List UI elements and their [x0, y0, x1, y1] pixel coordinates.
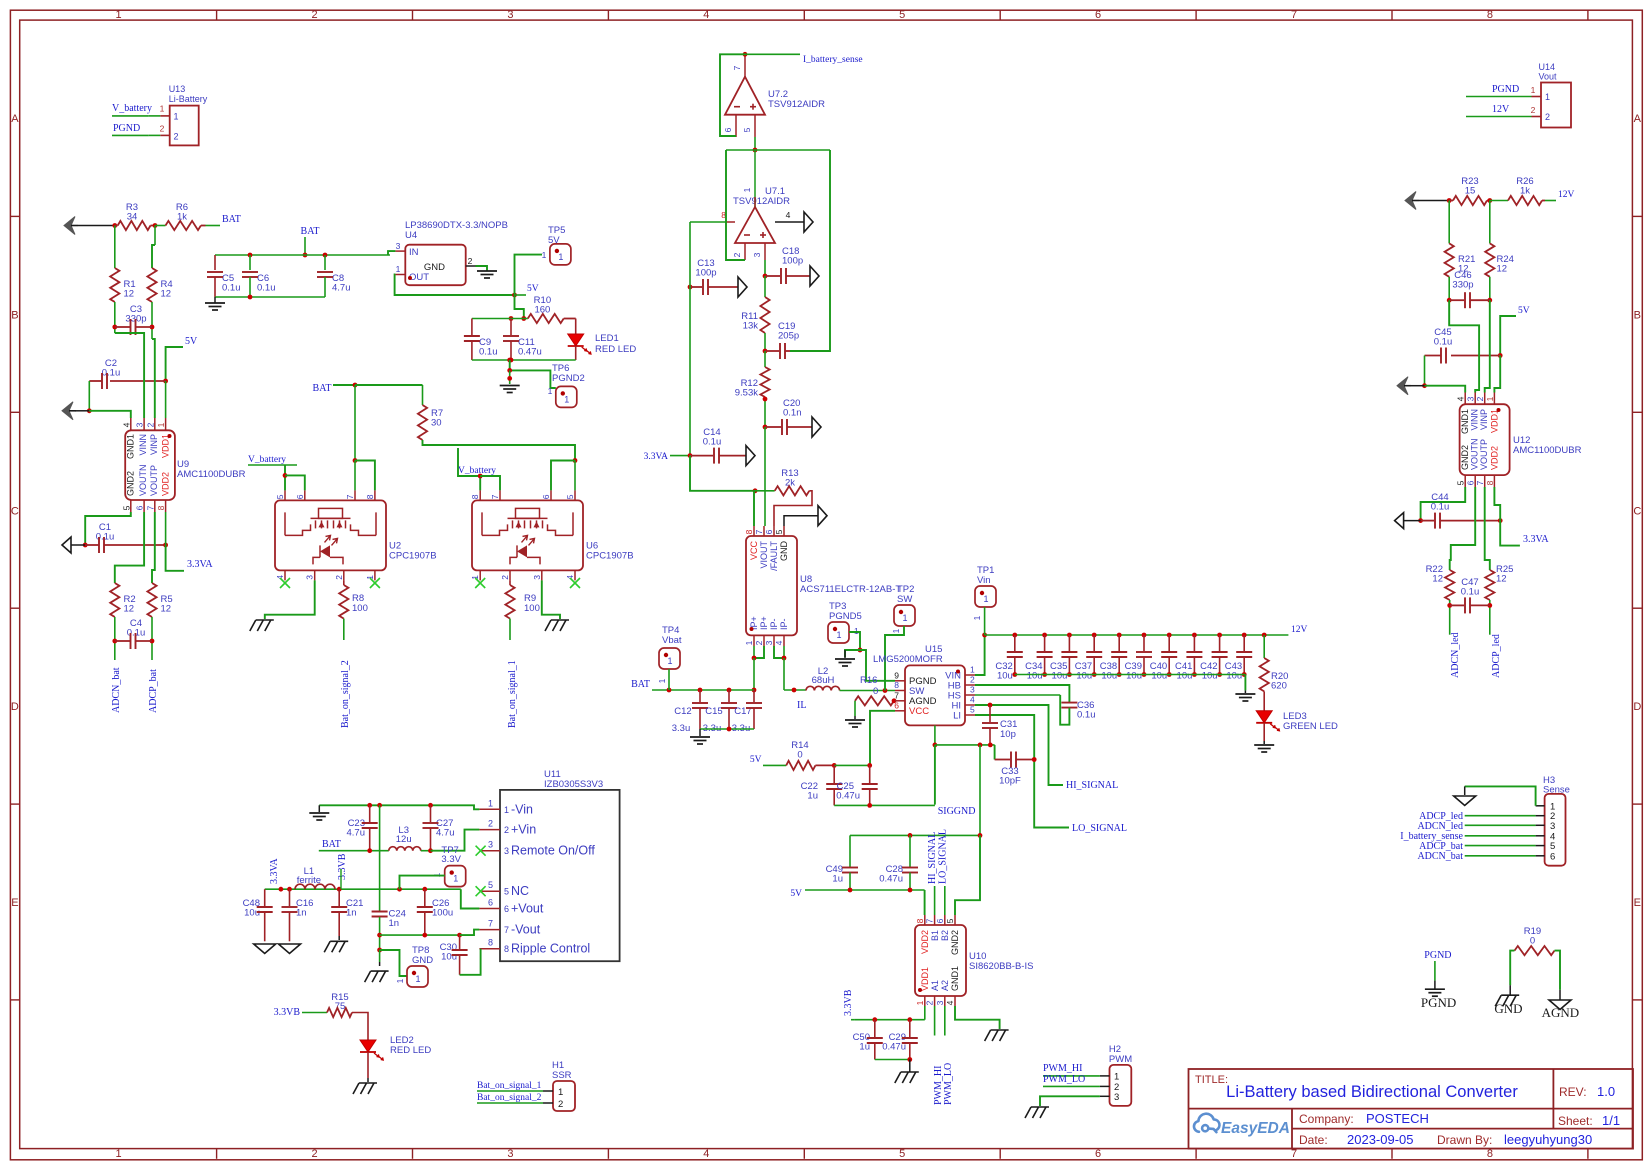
svg-text:A: A: [1634, 113, 1642, 125]
svg-text:IP-: IP-: [779, 618, 789, 630]
wire VDD2 to 3.3VA: [166, 545, 184, 571]
wire H3 pin1 to gnd: [1465, 786, 1536, 805]
svg-text:1: 1: [657, 678, 667, 683]
U7.2 pin 5 stub: [754, 115, 756, 137]
svg-text:5: 5: [504, 887, 509, 897]
svg-text:1: 1: [174, 112, 179, 122]
svg-text:4: 4: [121, 422, 131, 427]
svg-text:8: 8: [894, 680, 899, 690]
svg-text:13k: 13k: [743, 321, 759, 332]
svg-text:TITLE:: TITLE:: [1195, 1074, 1228, 1086]
svg-text:10u: 10u: [1151, 671, 1167, 682]
svg-text:7: 7: [754, 529, 764, 534]
svg-text:3: 3: [488, 840, 493, 850]
isolation amp U12 AMC1100DUBR: [1460, 404, 1510, 475]
wire row down to C33: [994, 745, 996, 760]
svg-text:1: 1: [891, 628, 901, 633]
svg-text:GND1: GND1: [126, 434, 136, 459]
wire BAT to R7 and U2: [333, 384, 355, 386]
svg-text:POSTECH: POSTECH: [1366, 1111, 1429, 1126]
junction R23 left: [1447, 198, 1452, 203]
wire U4 GND to gnd: [476, 266, 488, 271]
svg-text:205p: 205p: [778, 331, 799, 342]
svg-text:8: 8: [1487, 9, 1493, 21]
svg-text:1n: 1n: [389, 918, 400, 929]
svg-text:BAT: BAT: [222, 214, 241, 225]
open triangle gnd C16: [279, 944, 301, 954]
svg-text:1n: 1n: [296, 908, 307, 919]
wire U12 VOUTN to R22: [1450, 487, 1476, 570]
svg-text:Drawn By:: Drawn By:: [1437, 1133, 1492, 1147]
svg-text:4: 4: [703, 9, 709, 21]
svg-text:3: 3: [504, 846, 509, 856]
svg-text:3: 3: [507, 1148, 513, 1160]
wire TP6 branch: [510, 360, 556, 388]
wire VCC stub down: [754, 491, 755, 526]
svg-text:3: 3: [305, 575, 315, 580]
svg-text:B2: B2: [940, 930, 950, 941]
U7.1 pin 3 stub: [764, 243, 766, 260]
svg-text:OUT: OUT: [409, 272, 429, 283]
svg-text:PGND2: PGND2: [552, 373, 585, 384]
wire R19 left to GND: [1510, 951, 1514, 986]
svg-text:0: 0: [797, 750, 802, 761]
svg-text:2: 2: [1545, 112, 1550, 122]
svg-text:1: 1: [156, 422, 166, 427]
svg-text:10u: 10u: [1126, 671, 1142, 682]
wire to U2 pin8: [355, 461, 375, 491]
svg-text:1: 1: [1545, 92, 1550, 102]
wire R1 bottom to U9 VINN: [115, 333, 144, 418]
svg-text:5: 5: [275, 494, 285, 499]
svg-text:2: 2: [970, 675, 975, 685]
svg-text:GND1: GND1: [1460, 409, 1470, 434]
wire U6 pin3 to gnd: [542, 580, 560, 619]
svg-text:A: A: [11, 113, 19, 125]
12V power rail: [985, 634, 1289, 636]
junction C22 top: [832, 763, 837, 768]
svg-text:2: 2: [732, 252, 742, 257]
svg-text:3: 3: [396, 241, 401, 251]
svg-text:PGND: PGND: [1421, 995, 1456, 1010]
wire R4 bottom to U9 VINP: [152, 339, 155, 418]
svg-text:VOUTP: VOUTP: [1479, 439, 1489, 470]
wire TP8 branch: [380, 950, 407, 976]
svg-text:12: 12: [161, 289, 172, 300]
svg-text:7: 7: [925, 918, 935, 923]
svg-text:SSR: SSR: [552, 1070, 572, 1081]
svg-text:VINP: VINP: [1479, 409, 1489, 430]
wire 5V node to TP5: [515, 255, 543, 295]
junction GND1 node: [87, 408, 92, 413]
bottom rail caps: [1015, 674, 1246, 676]
wire R15 to LED2: [352, 1013, 368, 1041]
svg-text:6: 6: [1095, 1148, 1101, 1160]
resistor R12 9.53k: [764, 351, 766, 367]
wire A1 down PWM_HI: [934, 1006, 936, 1036]
wire GND pin to port: [784, 516, 818, 526]
capacitor C41 10u: [1192, 633, 1197, 638]
svg-text:+Vout: +Vout: [511, 902, 544, 916]
SSR U2 CPC1907B: [275, 500, 386, 570]
svg-text:1: 1: [558, 1087, 563, 1098]
gate driver U15 LMG5200MOFR: [905, 665, 965, 725]
svg-text:0.1u: 0.1u: [1434, 337, 1453, 348]
svg-text:3.3VB: 3.3VB: [843, 989, 854, 1016]
wire IL node: [784, 689, 806, 691]
junction C47 right: [1487, 603, 1492, 608]
svg-text:10u: 10u: [441, 952, 457, 963]
svg-text:E: E: [1634, 897, 1641, 909]
svg-text:TSV912AIDR: TSV912AIDR: [733, 196, 790, 207]
ground (chassis) LED2: [367, 1078, 369, 1082]
ground (chassis) GND port: [1501, 994, 1519, 996]
svg-text:4: 4: [786, 210, 791, 220]
junction C25 top / VCC: [867, 763, 872, 768]
svg-text:3: 3: [1550, 821, 1555, 832]
svg-text:7: 7: [504, 925, 509, 935]
svg-text:7: 7: [488, 919, 493, 929]
svg-text:CPC1907B: CPC1907B: [389, 550, 437, 561]
svg-text:1: 1: [854, 626, 859, 636]
svg-text:0.1u: 0.1u: [1461, 587, 1480, 598]
wire HB to C36: [975, 685, 1069, 702]
wire U4 OUT to 5V node: [395, 275, 515, 296]
svg-text:1: 1: [542, 250, 547, 260]
U7.1 pin 1 stub: [754, 150, 756, 207]
svg-text:C12: C12: [674, 706, 691, 717]
wire R26 to 12V: [1545, 200, 1556, 202]
svg-text:3.3VA: 3.3VA: [269, 858, 280, 884]
svg-text:LI: LI: [953, 711, 961, 722]
svg-text:12: 12: [161, 604, 172, 615]
capacitor C43 10u: [1242, 633, 1247, 638]
capacitor C38 10u: [1117, 633, 1122, 638]
svg-text:0: 0: [873, 686, 878, 697]
svg-text:10u: 10u: [1177, 671, 1193, 682]
wire -Vout pin: [460, 930, 480, 936]
svg-text:620: 620: [1271, 681, 1287, 692]
ground (chassis) U6: [551, 619, 569, 621]
wire R9 down Bat_on_signal_1: [509, 619, 511, 640]
svg-text:8: 8: [488, 938, 493, 948]
wire R16 left to gnd: [854, 701, 856, 716]
svg-text:GND: GND: [779, 541, 789, 562]
wire VIOUT vertical: [764, 427, 766, 526]
svg-text:4: 4: [945, 1000, 955, 1005]
svg-text:1: 1: [116, 9, 122, 21]
wire top rail C9-C11: [472, 318, 524, 320]
svg-text:4: 4: [970, 695, 975, 705]
svg-text:5: 5: [1456, 480, 1466, 485]
wire U9 VOUTP to R5: [152, 512, 155, 583]
capacitor C40 10u: [1167, 633, 1172, 638]
wire U13 pin2: [149, 134, 161, 136]
svg-text:VOUTP: VOUTP: [149, 465, 159, 496]
junction row left: [933, 743, 938, 748]
svg-text:1k: 1k: [1520, 186, 1530, 197]
svg-text:10u: 10u: [1101, 671, 1117, 682]
wire HI to HI_SIGNAL: [975, 705, 1063, 785]
wire loop left to pin2: [726, 150, 745, 260]
svg-text:10u: 10u: [244, 908, 260, 919]
svg-text:6: 6: [295, 494, 305, 499]
svg-text:5: 5: [488, 880, 493, 890]
svg-text:AMC1100DUBR: AMC1100DUBR: [177, 469, 246, 480]
wire R21 to C46: [1448, 277, 1450, 326]
wire R11 to C19: [764, 333, 766, 351]
svg-text:1: 1: [744, 640, 754, 645]
junction GND1 U12: [1422, 383, 1427, 388]
svg-text:Bat_on_signal_1: Bat_on_signal_1: [477, 1081, 542, 1091]
wire R25 to C47: [1489, 600, 1491, 635]
svg-text:VOUTN: VOUTN: [138, 465, 148, 497]
capacitor C34 10u: [1042, 633, 1047, 638]
junction C1 node: [83, 543, 88, 548]
svg-text:100: 100: [352, 603, 368, 614]
ground (chassis) U2: [256, 619, 274, 621]
svg-text:5: 5: [899, 9, 905, 21]
svg-text:6: 6: [1550, 851, 1555, 862]
svg-text:9: 9: [894, 670, 899, 680]
wire TP7 to 3.3VB rail: [400, 876, 445, 890]
svg-text:5: 5: [899, 1148, 905, 1160]
svg-text:GND2: GND2: [126, 471, 136, 496]
svg-text:VOUTN: VOUTN: [1470, 439, 1480, 471]
svg-text:C: C: [11, 505, 19, 517]
svg-text:7: 7: [490, 494, 500, 499]
svg-text:10u: 10u: [1052, 671, 1068, 682]
capacitor C39 10u: [1142, 633, 1147, 638]
svg-text:VIOUT: VIOUT: [759, 541, 769, 569]
ground (chassis) H2: [1031, 1106, 1049, 1108]
svg-text:2: 2: [488, 819, 493, 829]
svg-text:2: 2: [160, 124, 165, 134]
svg-text:5: 5: [945, 918, 955, 923]
no-connect X U6 pin1: [475, 578, 485, 588]
junction C19: [763, 349, 768, 354]
svg-text:VINN: VINN: [138, 434, 148, 456]
svg-text:Vout: Vout: [1539, 72, 1558, 82]
svg-text:+Vin: +Vin: [511, 823, 536, 837]
svg-text:1: 1: [116, 1148, 122, 1160]
wire A2 down PWM_LO: [944, 1006, 946, 1036]
svg-text:12V: 12V: [1291, 625, 1308, 635]
svg-text:10u: 10u: [1202, 671, 1218, 682]
svg-text:LP38690DTX-3.3/NOPB: LP38690DTX-3.3/NOPB: [405, 220, 508, 231]
svg-text:1: 1: [1531, 85, 1536, 95]
wire 5V node down to R10 rail: [515, 295, 524, 319]
svg-text:Li-Battery: Li-Battery: [169, 94, 208, 104]
ground port (gray arrow) R23: [1405, 192, 1416, 210]
svg-text:1: 1: [972, 615, 982, 620]
svg-text:2: 2: [1475, 396, 1485, 401]
digital isolator U10 SI8620BB-B-IS: [915, 925, 966, 996]
svg-text:8: 8: [1485, 480, 1495, 485]
wire H2 pin3 to gnd: [1040, 1096, 1100, 1106]
svg-text:LO_SIGNAL: LO_SIGNAL: [1072, 823, 1127, 834]
svg-text:8: 8: [744, 529, 754, 534]
bottom rail C9-LED1: [472, 359, 576, 361]
junction C44 node: [1418, 518, 1423, 523]
svg-text:3.3VA: 3.3VA: [187, 559, 213, 570]
junction C6 top: [248, 253, 253, 258]
wire U15 bottom to SIGGND row: [934, 725, 936, 745]
svg-text:1k: 1k: [177, 212, 187, 223]
svg-text:-Vin: -Vin: [511, 802, 533, 816]
svg-text:12: 12: [1496, 574, 1507, 585]
svg-text:V_battery: V_battery: [112, 103, 152, 114]
ground (signal) TP3: [845, 650, 860, 657]
svg-text:VINN: VINN: [1470, 409, 1480, 431]
svg-text:1u: 1u: [832, 874, 843, 885]
svg-text:-Vout: -Vout: [511, 923, 541, 937]
svg-text:12: 12: [124, 604, 135, 615]
svg-text:Sheet:: Sheet:: [1558, 1114, 1593, 1128]
svg-text:1: 1: [836, 630, 841, 640]
svg-text:1: 1: [667, 656, 672, 666]
svg-text:B: B: [11, 309, 18, 321]
svg-text:4: 4: [1456, 396, 1466, 401]
svg-text:CPC1907B: CPC1907B: [586, 550, 634, 561]
svg-text:1: 1: [915, 1000, 925, 1005]
junction R10 rail: [521, 316, 526, 321]
svg-text:6: 6: [894, 700, 899, 710]
wire VDD2 to 3.3VA: [1500, 521, 1520, 546]
junction C33 right on LI wire: [1032, 757, 1037, 762]
svg-text:3.3VA: 3.3VA: [644, 452, 669, 462]
svg-text:0.47u: 0.47u: [879, 874, 903, 885]
svg-text:100p: 100p: [695, 268, 716, 279]
svg-text:GND: GND: [424, 262, 445, 273]
svg-text:D: D: [11, 701, 19, 713]
svg-text:6: 6: [764, 529, 774, 534]
svg-text:1: 1: [983, 594, 988, 604]
svg-text:VDD1: VDD1: [1490, 409, 1500, 433]
wire L3 to +Vin: [421, 850, 431, 852]
junction R3 left: [112, 223, 117, 228]
svg-text:LED1: LED1: [595, 333, 619, 344]
svg-text:leegyuhyung30: leegyuhyung30: [1504, 1132, 1592, 1147]
svg-text:12: 12: [1497, 264, 1508, 275]
svg-text:5V: 5V: [185, 336, 198, 347]
svg-text:1u: 1u: [807, 791, 818, 802]
svg-text:LO_SIGNAL: LO_SIGNAL: [937, 829, 948, 884]
connector U13 Li-Battery: [170, 106, 199, 146]
junction U7.2 output: [743, 52, 748, 57]
wire GND1 node to U12 pin4: [1425, 386, 1466, 393]
svg-text:Vbat: Vbat: [662, 635, 682, 646]
svg-text:12: 12: [124, 289, 135, 300]
svg-text:2: 2: [468, 256, 473, 266]
junction C45 right: [1498, 353, 1503, 358]
svg-text:HI_SIGNAL: HI_SIGNAL: [1066, 780, 1118, 791]
port arrow C20: [812, 417, 821, 437]
U7.2 pin 7 output: [744, 54, 746, 76]
svg-text:Remote On/Off: Remote On/Off: [511, 844, 595, 858]
ground (chassis) C24: [379, 962, 381, 966]
wire U12 VOUTP to R25: [1485, 487, 1490, 570]
junction C18: [763, 274, 768, 279]
bottom rail C22/C25 to SIGGND: [834, 804, 935, 806]
svg-text:ACS711ELCTR-12AB-T: ACS711ELCTR-12AB-T: [800, 584, 901, 595]
svg-text:3.3VB: 3.3VB: [274, 1007, 301, 1018]
wire V_battery to U2 pins 5,6: [284, 465, 286, 490]
bottom rail C12-C17: [700, 728, 754, 730]
ground (chassis) U10 GND1: [991, 1029, 1009, 1031]
ground (signal) PGND port: [1425, 988, 1445, 990]
svg-text:A2: A2: [940, 980, 950, 991]
svg-text:6: 6: [1095, 9, 1101, 21]
wire PGND stub: [1434, 961, 1436, 981]
svg-text:2: 2: [145, 422, 155, 427]
bottom rail C50/C29: [875, 1059, 910, 1061]
svg-text:10u: 10u: [1226, 671, 1242, 682]
svg-text:1: 1: [415, 974, 420, 984]
svg-text:1: 1: [453, 874, 458, 884]
wire BAT down to U2 pin7: [354, 385, 356, 461]
wire IP+ pins join: [754, 646, 764, 658]
svg-text:Date:: Date:: [1299, 1133, 1328, 1147]
svg-text:2: 2: [174, 132, 179, 142]
junction BAT rail: [303, 253, 308, 258]
wire R21 to VINN U12: [1449, 300, 1479, 392]
ground (signal) LED3: [1254, 744, 1274, 746]
wire C2 left down: [88, 381, 90, 411]
wire to C20: [764, 410, 766, 427]
no-connect X U6 pin4: [570, 578, 580, 588]
svg-text:Bat_on_signal_2: Bat_on_signal_2: [477, 1093, 542, 1103]
svg-text:RED LED: RED LED: [390, 1045, 431, 1056]
svg-text:3: 3: [935, 1000, 945, 1005]
wire pin3 down chain: [764, 260, 766, 276]
open triangle gnd H3: [1454, 796, 1476, 806]
svg-text:NC: NC: [511, 884, 529, 898]
svg-text:3.3VA: 3.3VA: [1523, 534, 1549, 545]
wire U12 GND2 to C44 node: [1421, 487, 1466, 521]
wire SIGGND corner: [934, 745, 936, 805]
svg-text:SW: SW: [897, 594, 912, 605]
isolation amp U9 AMC1100DUBR: [125, 430, 175, 500]
junction C46 left: [1447, 298, 1452, 303]
svg-text:10p: 10p: [1000, 729, 1016, 740]
wire R24 to C46: [1489, 277, 1491, 300]
svg-text:6: 6: [935, 918, 945, 923]
svg-text:5: 5: [565, 494, 575, 499]
svg-text:VDD2: VDD2: [920, 930, 930, 954]
svg-text:5V: 5V: [527, 284, 539, 294]
junction 5V node: [512, 293, 517, 298]
BAT rail U11: [319, 850, 389, 852]
svg-text:VDD2: VDD2: [1490, 446, 1500, 470]
junction C14: [688, 453, 693, 458]
junction R23/R26: [1487, 198, 1492, 203]
op-amp U7.1 TSV912AIDR: [735, 207, 775, 243]
svg-text:3: 3: [507, 9, 513, 21]
svg-text:7: 7: [732, 65, 742, 70]
svg-text:ADCP_led: ADCP_led: [1491, 634, 1502, 678]
svg-text:0.1n: 0.1n: [783, 408, 802, 419]
wire U9 VDD2 down: [165, 512, 167, 545]
capacitor C42 10u: [1217, 633, 1222, 638]
svg-text:GND2: GND2: [1460, 445, 1470, 470]
svg-text:PGND: PGND: [1492, 84, 1519, 95]
svg-text:ADCN_bat: ADCN_bat: [1417, 851, 1463, 862]
svg-text:VDD1: VDD1: [920, 967, 930, 991]
svg-text:ADCP_bat: ADCP_bat: [148, 669, 159, 713]
svg-text:Bat_on_signal_1: Bat_on_signal_1: [507, 660, 518, 728]
svg-text:2: 2: [504, 825, 509, 835]
